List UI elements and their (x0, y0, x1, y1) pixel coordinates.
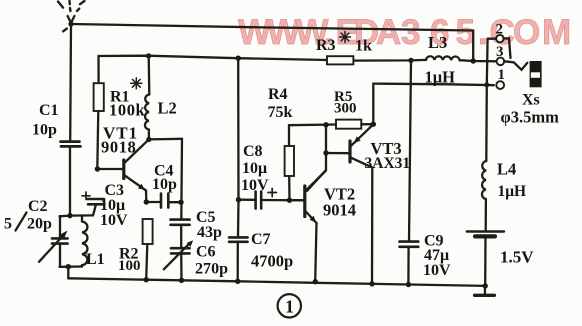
svg-text:C8: C8 (243, 143, 263, 160)
svg-text:C7: C7 (251, 231, 271, 248)
node: collector L2 junction (146, 137, 182, 142)
svg-text:C1: C1 (39, 102, 59, 119)
svg-text:1.5V: 1.5V (500, 248, 534, 267)
node: C7 rail junction (236, 56, 241, 61)
svg-text:L1: L1 (86, 251, 105, 268)
node: antenna drop junction (471, 58, 476, 63)
svg-text:L4: L4 (497, 160, 516, 179)
label R1 (109, 89, 146, 120)
label C4 (152, 163, 177, 194)
label C5 (196, 209, 222, 241)
wire: tank bottom (60, 264, 83, 278)
label VT1 (101, 124, 138, 157)
capacitor C2 (variable) (39, 216, 68, 267)
star mark R1 (131, 78, 142, 89)
svg-text:1μH: 1μH (425, 68, 456, 87)
jack plug Xs (530, 61, 542, 87)
node: R3-L3 junction (408, 58, 413, 63)
svg-text:C6: C6 (196, 244, 216, 261)
capacitor C9 (400, 242, 419, 288)
label Xs (501, 92, 560, 127)
wire: jack pin2 riser / L4 feed (486, 39, 487, 161)
svg-text:5: 5 (4, 216, 12, 233)
label C1 (32, 102, 59, 139)
svg-text:75k: 75k (268, 104, 293, 121)
svg-text:10V: 10V (423, 262, 451, 279)
wire: VT3 base drop (307, 125, 329, 191)
svg-text:WWW.EDA365.COM: WWW.EDA365.COM (238, 13, 571, 52)
star mark R3 (340, 32, 351, 43)
inductor L1 (82, 216, 87, 267)
svg-text:9018: 9018 (101, 138, 136, 157)
svg-text:100: 100 (118, 258, 141, 274)
svg-text:10V: 10V (100, 212, 128, 229)
label R4 (268, 86, 293, 121)
label C7 (251, 231, 293, 271)
wire: VT3 base (326, 152, 349, 154)
capacitor C7 (229, 237, 248, 281)
wire: VT1 base (95, 166, 123, 171)
battery 1.5V (467, 232, 504, 286)
capacitor C1 (61, 142, 81, 216)
label L3 (425, 33, 456, 87)
jack pin 3 (496, 44, 527, 70)
inductor L4 (482, 161, 486, 231)
svg-text:10p: 10p (152, 176, 177, 193)
resistor R3 (327, 56, 353, 64)
resistor R4 (285, 125, 294, 203)
svg-text:Xs: Xs (522, 92, 540, 109)
svg-text:3AX31: 3AX31 (365, 155, 411, 172)
resistor R5 (336, 120, 376, 129)
jack pin 2 (488, 22, 511, 59)
label L4 (497, 160, 526, 201)
jack pin 1 (496, 67, 505, 89)
capacitor C4 (144, 194, 184, 208)
node: tank top wire (60, 213, 93, 218)
svg-text:4700p: 4700p (251, 252, 293, 271)
wire: C9 drop from R3-L3 node (409, 60, 411, 241)
label 1.5V (500, 248, 534, 267)
wire: antenna vertical down to C1 (69, 24, 72, 141)
svg-text:L3: L3 (428, 33, 447, 52)
svg-text:10p: 10p (32, 122, 57, 139)
wire: C4/C5 vertical (180, 139, 183, 220)
transistor VT2 (305, 171, 326, 285)
resistor R1 (94, 56, 104, 169)
label R3 (316, 37, 372, 55)
svg-text:R3: R3 (316, 37, 336, 54)
capacitor C5 (171, 220, 190, 248)
svg-text:1k: 1k (355, 38, 372, 55)
wire: VT2 collector bus (289, 122, 336, 127)
label VT2 (323, 185, 356, 220)
antenna (58, 1, 84, 31)
figure number 1 (278, 294, 301, 317)
wire: ground rail (bottom) (68, 277, 488, 289)
svg-text:φ3.5mm: φ3.5mm (501, 108, 560, 127)
svg-text:20p: 20p (27, 216, 52, 233)
transistor VT1 (124, 140, 149, 202)
svg-text:300: 300 (334, 101, 357, 117)
label R5 (334, 89, 357, 117)
wire: antenna drop to pin3 wire (472, 31, 474, 62)
wire: B+ horizontal to jack pin1 (373, 82, 494, 87)
svg-text:43p: 43p (197, 224, 222, 241)
svg-text:270p: 270p (195, 261, 228, 278)
label L2 (158, 99, 177, 118)
resistor R2 (143, 219, 153, 280)
svg-text:9014: 9014 (323, 201, 356, 220)
watermark WWW.EDA365.COM (238, 13, 571, 52)
wire: VT2 base (290, 199, 304, 201)
svg-text:R4: R4 (268, 86, 288, 103)
label VT3 (365, 139, 411, 172)
label R2 (118, 246, 141, 274)
capacitor C8 (236, 188, 304, 208)
svg-text:10μ: 10μ (242, 160, 267, 177)
label C6 (195, 244, 228, 278)
svg-text:L2: L2 (158, 99, 177, 118)
svg-text:100k: 100k (109, 101, 146, 120)
label C3 (100, 182, 128, 229)
svg-text:1: 1 (285, 297, 294, 317)
inductor L2 (145, 56, 149, 139)
label C2 (4, 198, 52, 233)
svg-text:C2: C2 (28, 198, 48, 215)
node: L2 rail junction (146, 53, 151, 58)
inductor L3 (426, 56, 460, 60)
ground end bar (475, 286, 495, 295)
capacitor C6 (variable) (164, 240, 193, 280)
wire: antenna top run to jack drop (71, 24, 473, 31)
wire: B+ riser from R5 node (372, 84, 374, 125)
label C8 (241, 143, 269, 194)
svg-text:10V: 10V (241, 177, 269, 194)
label C9 (423, 233, 451, 280)
capacitor C3 (82, 192, 104, 215)
label L1 (86, 251, 105, 268)
wire: oscillator rail (R1 top to jack pin3) (99, 56, 497, 62)
transistor VT3 (350, 125, 375, 287)
wire: C7/C8 vertical from rail (237, 58, 240, 237)
svg-text:1μH: 1μH (498, 183, 527, 200)
